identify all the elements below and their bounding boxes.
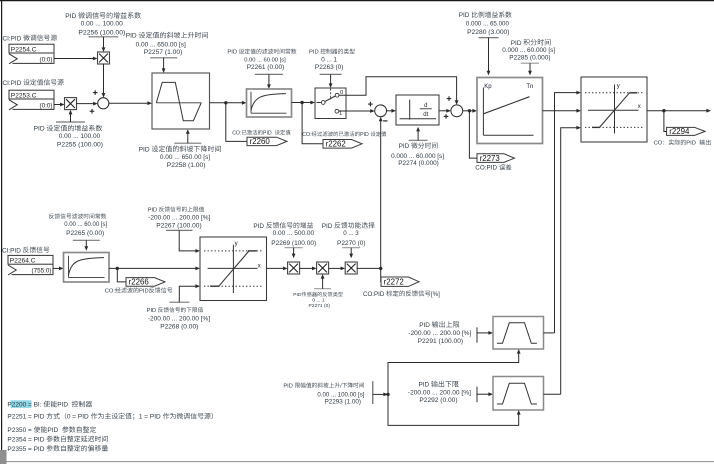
- svg-text:P2251 = PID: P2251 = PID: [7, 414, 44, 421]
- svg-text:0 ... 3: 0 ... 3: [343, 230, 359, 237]
- parameter P2268 label (feedback lower limit): [147, 307, 211, 330]
- plus sign at S3 top input: [447, 96, 452, 101]
- lower limit ramp block (P2292): [493, 377, 544, 411]
- plus sign at S2 left input: [368, 102, 373, 107]
- parameter P2292 value bar and wire into lower ramp block: [477, 387, 493, 403]
- svg-text:-200.00 ... 200.00 [%]: -200.00 ... 200.00 [%]: [148, 214, 210, 221]
- parameter P2270 label (feedback function selector): [322, 222, 375, 247]
- svg-text:PID: PID: [148, 207, 157, 213]
- parameter P2268 T-bar and elbow into feedback limiter lower input: [169, 284, 200, 302]
- parameter P2256 T-bar into multiplier M1: [89, 37, 119, 52]
- wire M4 to M5: [329, 267, 346, 271]
- svg-text:P2257 (1.00): P2257 (1.00): [144, 49, 183, 56]
- svg-text:CI:PID: CI:PID: [2, 247, 21, 254]
- svg-text:0.00 ... 100.00: 0.00 ... 100.00: [81, 20, 123, 27]
- svg-text:PID: PID: [139, 288, 149, 294]
- wire M5 to feedback node: [357, 267, 382, 270]
- svg-text:P2354 = PID: P2354 = PID: [7, 436, 44, 443]
- connector P2253.C: [9, 90, 54, 110]
- parameter P2263 T-bar into switch: [320, 74, 342, 88]
- wire switch position 1 to summer S2: [339, 109, 375, 113]
- summer S2 (PID error): [375, 105, 387, 117]
- plus sign at S1 left input: [90, 109, 95, 114]
- svg-text:PID: PID: [399, 143, 410, 150]
- svg-text:y: y: [235, 241, 238, 247]
- parameter P2258 label (setpoint ramp-down time): [139, 145, 221, 168]
- summer S1 (setpoint + trim): [98, 98, 109, 109]
- svg-text:CI:PID: CI:PID: [3, 80, 22, 87]
- wire lower limit ramp up to output limiter bottom input: [561, 126, 581, 394]
- svg-text:P2350 =: P2350 =: [7, 427, 32, 434]
- svg-text:-200.00 ... 200.00 [%]: -200.00 ... 200.00 [%]: [148, 315, 210, 322]
- parameter P2285 T-bar into PI block: [521, 63, 539, 75]
- svg-text:r2260: r2260: [250, 137, 271, 146]
- svg-text:P2254.C: P2254.C: [11, 47, 37, 54]
- connector P2254.C: [9, 44, 54, 64]
- svg-text:PID: PID: [511, 40, 522, 47]
- svg-text:CO: CO: [654, 141, 663, 147]
- parameter P2269 T-bar into multiplier M3: [285, 248, 303, 259]
- svg-text:PID: PID: [459, 12, 470, 19]
- svg-text:[%]: [%]: [431, 291, 440, 298]
- wire tap to tag r2273: [469, 111, 477, 158]
- svg-text:(0:0): (0:0): [40, 56, 53, 63]
- parameter P2265 label (feedback filter time constant): [49, 213, 108, 237]
- svg-text:PID: PID: [686, 141, 696, 147]
- svg-text:r2273: r2273: [480, 154, 501, 163]
- svg-text:0.00 ... 650.00 [s]: 0.00 ... 650.00 [s]: [160, 154, 210, 161]
- wire feedback limiter to multiplier M3: [267, 267, 288, 271]
- parameter P2269 label (feedback gain): [253, 222, 316, 247]
- svg-text:P2274 (0.000): P2274 (0.000): [398, 160, 439, 167]
- wire upper ramp output to limiter (up): [544, 332, 555, 334]
- summer S3 (P+D): [451, 105, 463, 117]
- svg-text:PID: PID: [293, 292, 302, 298]
- parameter P2261 label (setpoint filter time constant): [227, 49, 296, 71]
- parameter P2261 T-bar into setpoint filter: [255, 74, 283, 89]
- svg-text:Kp: Kp: [484, 84, 492, 90]
- svg-text:P2265 (0.00): P2265 (0.00): [66, 230, 104, 237]
- plus sign at S3 left input: [444, 114, 449, 119]
- plus sign at S1 top input: [93, 90, 98, 95]
- wire switch position 0 bypass to summer S3: [339, 77, 459, 105]
- switch block (controller type selector): [315, 88, 346, 119]
- connector P2264.C: [8, 255, 53, 275]
- parameter P2280 T-bar into PI block: [479, 38, 499, 76]
- svg-text:x: x: [258, 263, 261, 269]
- minus sign at S2 bottom input: [383, 120, 387, 122]
- parameter P2255 T-bar into multiplier M2: [56, 110, 85, 122]
- svg-text:PID: PID: [139, 146, 150, 153]
- wire upper limit ramp up to output limiter top input: [555, 91, 582, 333]
- wire lower ramp output to limiter (up): [544, 393, 561, 395]
- wire PI block to output limiter: [543, 109, 582, 113]
- svg-text:P2264.C: P2264.C: [10, 258, 36, 265]
- svg-text:CO:: CO:: [105, 288, 116, 294]
- svg-text:P2285 (0.000): P2285 (0.000): [509, 54, 550, 61]
- note highlight on P2200: [11, 400, 32, 408]
- svg-text:0 ... 1: 0 ... 1: [312, 297, 325, 303]
- svg-text:P2292 (0.00): P2292 (0.00): [419, 397, 457, 404]
- svg-text:/: /: [340, 383, 342, 389]
- parameter P2257 label (setpoint ramp-up time): [126, 32, 208, 56]
- svg-text:(755:0): (755:0): [32, 268, 52, 275]
- tag r2266: [126, 278, 165, 287]
- wire tap to tag r2260: [226, 103, 247, 142]
- svg-text:CO:: CO:: [232, 130, 241, 136]
- parameter P2263 label (PID controller type): [309, 49, 355, 71]
- svg-text:-200.00 ... 200.00 [%]: -200.00 ... 200.00 [%]: [408, 390, 471, 397]
- svg-text:CI:PID: CI:PID: [3, 35, 22, 42]
- svg-text:0.00 ... 650.00 [s]: 0.00 ... 650.00 [s]: [136, 42, 186, 49]
- svg-text:r2294: r2294: [669, 127, 690, 136]
- wire S1 to ramp generator: [109, 101, 152, 105]
- svg-text:0.00 ... 60.00 [s]: 0.00 ... 60.00 [s]: [64, 222, 107, 228]
- tag r2262: [323, 140, 362, 149]
- wire ramp generator to setpoint filter: [210, 101, 247, 105]
- wire tap to tag r2266: [117, 268, 126, 282]
- multiplier M5 (feedback function): [345, 262, 357, 274]
- parameter P2258 T-bar into ramp generator bottom: [174, 129, 201, 143]
- parameter P2291 label (PID output upper limit): [408, 321, 471, 345]
- svg-text:P2269 (100.00): P2269 (100.00): [271, 240, 316, 247]
- wire M2 to summer S1: [77, 102, 98, 106]
- svg-text:PID: PID: [263, 130, 272, 136]
- svg-text:r2262: r2262: [326, 140, 346, 149]
- svg-text:PID: PID: [419, 382, 430, 389]
- wire feedback filter to feedback limiter: [109, 267, 200, 271]
- svg-text:P2261 (0.00): P2261 (0.00): [247, 64, 285, 71]
- svg-text:PID: PID: [34, 126, 45, 133]
- parameter P2267 T-bar and elbow into feedback limiter upper input: [166, 230, 200, 252]
- wire tap to tag r2262: [302, 103, 323, 144]
- wire P2253 to multiplier M2: [54, 103, 65, 107]
- feedback limiter block: [200, 237, 267, 301]
- parameter P2291 value bar and wire into upper ramp block: [477, 327, 493, 343]
- parameter P2274 T-bar into derivative block: [409, 127, 428, 141]
- svg-text:r2272: r2272: [384, 277, 404, 286]
- wire setpoint filter to switch: [292, 101, 316, 105]
- svg-text:CO:PID: CO:PID: [363, 291, 385, 298]
- svg-text:P2280 (3.000): P2280 (3.000): [467, 29, 509, 36]
- setpoint filter block (PT1): [247, 89, 292, 117]
- upper limit ramp block (P2291): [493, 317, 544, 350]
- multiplier M2 (setpoint gain): [65, 98, 77, 110]
- output limiter block: [581, 77, 647, 142]
- wire S2 to derivative block: [387, 109, 397, 113]
- svg-text:PID: PID: [283, 383, 292, 389]
- svg-text:1 = PID: 1 = PID: [139, 414, 161, 421]
- svg-text:PID: PID: [309, 50, 319, 56]
- wire tap to tag r2294: [664, 111, 667, 132]
- svg-text:P2268 (0.00): P2268 (0.00): [160, 323, 198, 330]
- border frame bottom-left grey block: [0, 450, 7, 464]
- svg-text:0 ... 1: 0 ... 1: [321, 56, 337, 63]
- tag r2272: [381, 277, 419, 286]
- svg-text:(0:0): (0:0): [40, 102, 53, 109]
- wire S3 to PI controller block: [463, 109, 477, 113]
- svg-text:dt: dt: [423, 112, 428, 118]
- svg-text:P2270 (0): P2270 (0): [337, 240, 366, 247]
- parameter P2293 label (output limit ramp time): [283, 382, 364, 405]
- svg-text:PID: PID: [57, 402, 68, 409]
- parameter P2267 label (feedback upper limit): [148, 206, 211, 229]
- svg-text:PID: PID: [47, 427, 58, 434]
- svg-text:P2267 (100.00): P2267 (100.00): [156, 222, 201, 229]
- parameter P2293 value bar and wire to ramp time node: [373, 381, 390, 404]
- PI controller block Kp Tn: [477, 78, 543, 144]
- parameter P2271 T-bar into multiplier M4: [314, 274, 331, 289]
- svg-text:PID: PID: [227, 50, 237, 56]
- ramp-function generator block (P2257/P2258): [152, 73, 210, 129]
- parameter P2255 label (setpoint gain): [34, 125, 103, 149]
- svg-text:0.000 ... 65.000: 0.000 ... 65.000: [466, 21, 510, 28]
- feedback filter block (PT1): [64, 253, 110, 283]
- svg-text:PID: PID: [419, 322, 430, 329]
- wire M1 to summer S1: [102, 64, 106, 98]
- svg-text:0 = PID: 0 = PID: [67, 414, 89, 421]
- wire M3 to M4: [300, 267, 317, 271]
- parameter P2274 label (PID derivative time): [391, 142, 444, 167]
- svg-text:P2291 (100.00): P2291 (100.00): [418, 338, 463, 345]
- svg-text:P2255 (100.00): P2255 (100.00): [57, 142, 103, 149]
- svg-text:0.00 ... 500.00: 0.00 ... 500.00: [273, 230, 315, 237]
- border frame left line: [1, 0, 3, 456]
- svg-text:P2256 (100.00): P2256 (100.00): [78, 30, 125, 37]
- svg-text:1: 1: [339, 111, 342, 117]
- wire ramp time node to lower ramp block bottom: [388, 394, 521, 425]
- svg-text:P2263 (0): P2263 (0): [315, 64, 344, 71]
- svg-text:0.00 ... 60.00 [s]: 0.00 ... 60.00 [s]: [244, 57, 286, 63]
- svg-text:P2258 (1.00): P2258 (1.00): [167, 162, 206, 169]
- tag r2273: [477, 154, 515, 163]
- svg-text:Tn: Tn: [526, 84, 533, 90]
- parameter P2280 label (PID proportional gain): [459, 11, 512, 36]
- svg-text:0.000 ... 60.000 [s]: 0.000 ... 60.000 [s]: [502, 47, 555, 54]
- svg-text:r2266: r2266: [129, 278, 150, 287]
- svg-text:PID: PID: [322, 223, 333, 230]
- svg-text:PID: PID: [126, 33, 137, 40]
- border frame bottom grey line: [0, 461, 714, 463]
- parameter P2285 label (PID integral time): [502, 39, 555, 61]
- svg-text:P2253.C: P2253.C: [11, 93, 37, 100]
- wire derivative to summer S3: [439, 109, 451, 113]
- svg-text:P2271 (0): P2271 (0): [309, 303, 331, 309]
- parameter P2256 label (PID trim signal gain): [65, 12, 141, 36]
- wire feedback up into summer S2: [379, 117, 383, 269]
- wire P2264 to feedback filter: [53, 267, 64, 271]
- svg-text:CO:PID: CO:PID: [475, 165, 497, 172]
- border frame top line: [0, 0, 714, 2]
- svg-text:P2200 = BI:: P2200 = BI:: [7, 402, 41, 409]
- multiplier M1 (trim gain): [98, 52, 110, 64]
- parameter P2257 T-bar into ramp generator: [150, 58, 177, 73]
- tag r2294: [667, 127, 706, 136]
- svg-text:d: d: [424, 103, 427, 109]
- wire output limiter to PID output: [647, 109, 711, 113]
- multiplier M4 (sensor feedback type): [317, 262, 329, 274]
- parameter P2270 T-bar into multiplier M5: [342, 248, 360, 259]
- svg-text:P2293 (1.00): P2293 (1.00): [325, 399, 361, 406]
- svg-text:PID: PID: [147, 308, 156, 314]
- multiplier M3 (feedback gain): [288, 262, 300, 274]
- wire tap to tag r2272: [380, 268, 382, 281]
- svg-text:0.00 ... 100.00 [s]: 0.00 ... 100.00 [s]: [317, 391, 364, 398]
- svg-text:y: y: [617, 84, 620, 90]
- parameter P2265 T-bar into feedback filter: [73, 240, 100, 251]
- svg-text:CO:: CO:: [302, 132, 311, 138]
- svg-text:PID: PID: [65, 13, 76, 20]
- wire P2254 to multiplier M1: [54, 57, 98, 61]
- svg-text:x: x: [638, 104, 641, 110]
- svg-text:PID: PID: [360, 132, 369, 138]
- parameter P2292 label (PID output lower limit): [408, 381, 471, 404]
- svg-text:0.00 ... 100.00: 0.00 ... 100.00: [59, 133, 101, 140]
- svg-text:PID: PID: [253, 223, 264, 230]
- svg-text:-200.00 ... 200.00 [%]: -200.00 ... 200.00 [%]: [408, 330, 471, 337]
- tag r2260: [247, 137, 287, 146]
- wire ramp time node to upper ramp block bottom: [388, 349, 521, 394]
- derivative d/dt block: [396, 95, 439, 125]
- parameter P2271 label (sensor feedback type): [293, 292, 343, 309]
- svg-text:P2355 = PID: P2355 = PID: [7, 446, 44, 453]
